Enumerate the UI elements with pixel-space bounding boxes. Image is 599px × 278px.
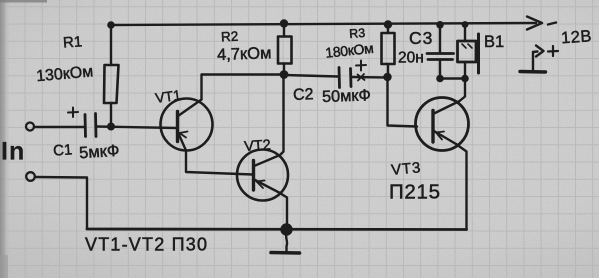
svg-text:В1: В1 (484, 33, 504, 51)
node: R3 bottom junction (385, 74, 391, 80)
svg-text:In: In (1, 138, 25, 166)
svg-text:VT3: VT3 (390, 159, 421, 179)
node: R2 top junction (281, 21, 287, 27)
svg-text:R2: R2 (221, 29, 239, 45)
C2 tick on wire (358, 74, 365, 81)
svg-text:20н: 20н (398, 50, 424, 67)
resistor R3 (387, 25, 389, 34)
photo edge top-left (0, 0, 47, 3)
wire: VT2 collector up to R2 node (280, 75, 284, 156)
svg-text:R3: R3 (349, 26, 366, 41)
svg-text:5мкФ: 5мкФ (79, 142, 120, 163)
svg-text:VT2: VT2 (244, 137, 272, 155)
wire: VT1 emitter to VT2 base (186, 151, 253, 175)
input terminal bottom (26, 172, 35, 181)
wire: VT3 collector to B1 node (460, 79, 466, 102)
wire: VT3 emitter to bottom rail (456, 144, 467, 230)
wire: C3 bottom to B1 bottom (440, 77, 465, 79)
wire: input to C1 (34, 126, 85, 128)
capacitor C2 (284, 75, 339, 77)
minus sign at -12V (548, 23, 556, 25)
node: B1 bottom junction (462, 76, 467, 81)
wire: top supply rail (111, 23, 536, 25)
svg-text:C3: C3 (409, 28, 433, 48)
transistor VT3 (416, 98, 469, 151)
svg-text:R1: R1 (62, 33, 82, 51)
node: C3 bottom junction (437, 76, 442, 81)
arrow to -12V terminal (527, 17, 542, 30)
wire: VT2 emitter to ground node (279, 193, 287, 230)
C2 plus sign (356, 61, 366, 71)
node: R1 bottom junction (108, 124, 114, 130)
phone B1 (464, 25, 466, 41)
capacitor C3 (439, 25, 441, 53)
resistor R1 (110, 25, 112, 65)
node: C3 top junction (437, 22, 442, 27)
svg-text:4,7кОм: 4,7кОм (217, 44, 272, 64)
plus sign at +terminal (548, 46, 558, 56)
input terminal top (26, 123, 34, 131)
wire: VT1 collector to R2 bottom (202, 75, 285, 100)
svg-text:12В: 12В (561, 27, 593, 47)
node: B1 top junction (463, 22, 467, 26)
wire: R3 node to VT3 base (388, 77, 418, 127)
C1 plus sign (68, 108, 78, 118)
transistor VT2 (237, 150, 288, 201)
ground symbol at VT2 emitter (282, 225, 292, 235)
svg-text:VT1-VT2 П30: VT1-VT2 П30 (85, 235, 208, 255)
resistor R2 (283, 24, 285, 37)
transistor VT1 (161, 99, 213, 151)
svg-text:50мкФ: 50мкФ (322, 86, 371, 106)
capacitor C1 (84, 115, 87, 137)
wire: bottom input to common (35, 177, 87, 229)
wire: C1 to VT1 base (96, 127, 177, 129)
svg-text:C2: C2 (293, 86, 314, 104)
plus supply terminal with ground (533, 50, 538, 53)
node: R2 bottom junction (281, 71, 287, 77)
svg-text:П215: П215 (389, 181, 441, 204)
wire: bottom common rail (87, 228, 467, 231)
node: R3 top junction (385, 22, 391, 28)
node: R1 top junction (108, 22, 113, 27)
svg-text:C1: C1 (53, 141, 73, 159)
